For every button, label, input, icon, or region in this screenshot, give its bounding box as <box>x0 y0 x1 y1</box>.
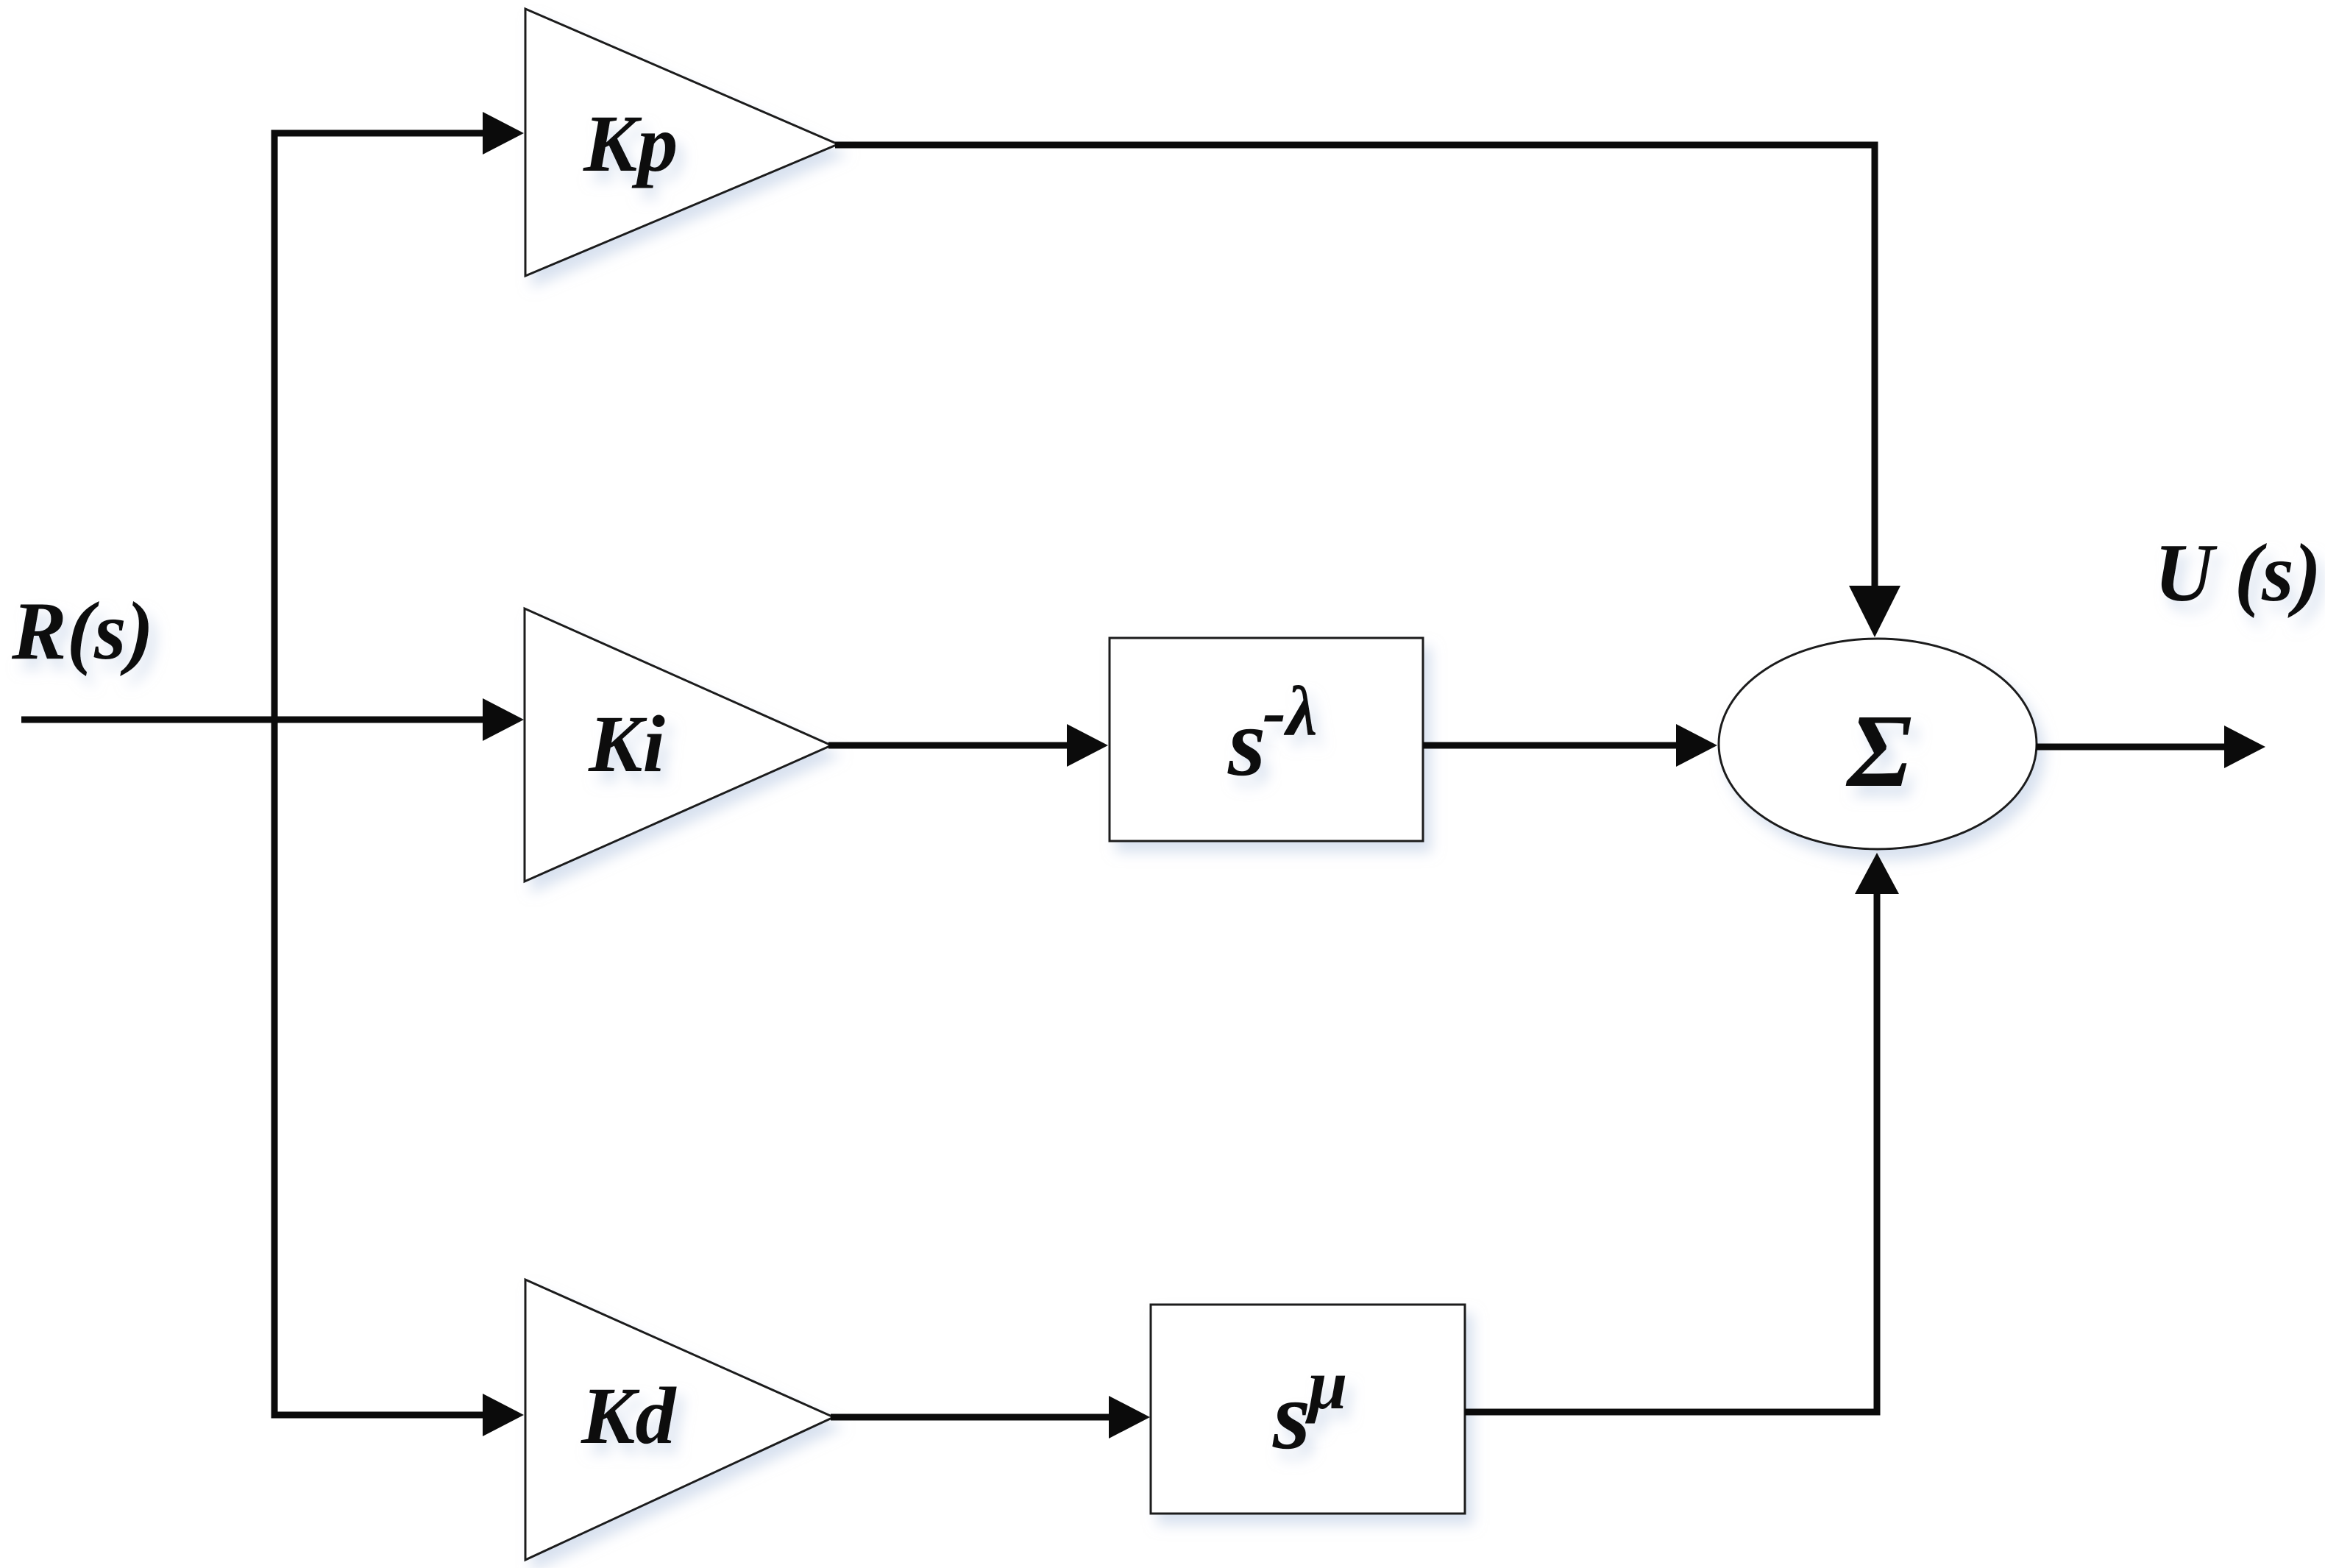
block s^-lambda (integrator) <box>1110 638 1423 841</box>
svg-text:Kd: Kd <box>581 1371 677 1461</box>
svg-text:s: s <box>1227 688 1266 796</box>
summer ellipse <box>1719 639 2037 849</box>
svg-text:Ki: Ki <box>588 699 665 789</box>
svg-text:μ: μ <box>1305 1345 1347 1424</box>
gain block Kd (triangle) <box>525 1280 834 1560</box>
wire s^mu output to summer (bottom path) <box>1465 893 1877 1412</box>
svg-text:s: s <box>1272 1361 1310 1469</box>
svg-text:-λ: -λ <box>1263 672 1318 751</box>
arrowhead into summer bottom <box>1855 853 1899 894</box>
arrowhead into s^-lambda block <box>1067 724 1108 767</box>
arrowhead into s^mu block <box>1109 1396 1150 1438</box>
arrowhead output U(s) <box>2224 726 2265 768</box>
wire Kd output <box>831 1414 1110 1421</box>
arrowhead into Kd <box>483 1394 524 1436</box>
arrowhead into Kp <box>483 112 524 155</box>
svg-text:Σ: Σ <box>1845 692 1912 809</box>
wire input from R(s) <box>21 717 486 723</box>
block s^mu (differentiator) <box>1151 1305 1465 1514</box>
wire Ki output <box>828 742 1068 749</box>
gain block Kp (triangle) <box>525 9 838 276</box>
gain block Ki (triangle) <box>525 609 831 881</box>
arrowhead into summer top <box>1849 586 1900 637</box>
wire s^-lambda output <box>1423 742 1676 749</box>
wire branch to Kd <box>271 1412 486 1419</box>
arrowhead into Ki <box>483 698 524 741</box>
wire summer output <box>2036 744 2225 751</box>
svg-text:U (s): U (s) <box>2154 528 2321 619</box>
svg-text:R(s): R(s) <box>11 586 154 677</box>
svg-text:Kp: Kp <box>583 99 678 188</box>
wire branch to Kp <box>271 130 486 137</box>
wire Kp output to summer (top path) <box>835 145 1875 589</box>
wire vertical branch at junction <box>271 130 278 1419</box>
arrowhead into summer left <box>1676 724 1717 767</box>
